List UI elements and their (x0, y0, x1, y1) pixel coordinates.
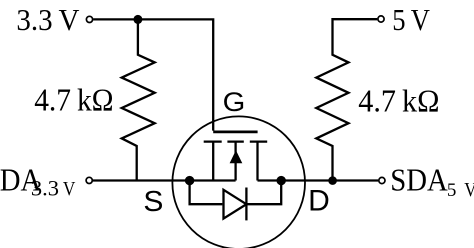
svg-text:3.3 V: 3.3 V (16, 2, 80, 37)
svg-text:4.7 kΩ: 4.7 kΩ (34, 83, 113, 118)
svg-text:4.7 kΩ: 4.7 kΩ (358, 83, 439, 118)
svg-text:D: D (308, 184, 330, 217)
svg-text:5: 5 (447, 180, 457, 201)
svg-text:3.3: 3.3 (31, 175, 59, 200)
svg-text:V: V (464, 179, 474, 201)
svg-text:V: V (63, 178, 76, 200)
svg-text:SDA: SDA (390, 163, 448, 198)
svg-text:G: G (223, 87, 246, 117)
svg-text:5 V: 5 V (392, 2, 430, 37)
svg-text:S: S (143, 186, 163, 218)
